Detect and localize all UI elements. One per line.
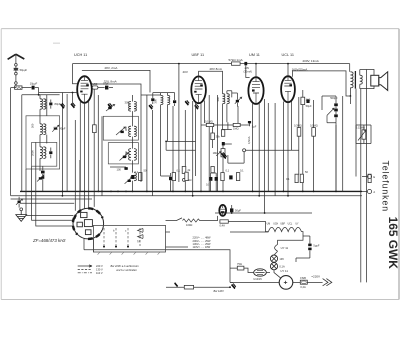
svg-text:0,1: 0,1 <box>226 169 230 173</box>
tube UCH11 electrodes <box>80 76 89 103</box>
svg-text:4,5mA: 4,5mA <box>247 136 251 144</box>
page border left edge <box>0 29 2 300</box>
wire UCH cathode leads down <box>80 102 88 210</box>
svg-text:300: 300 <box>216 97 220 102</box>
svg-text:Bei 220V a-b auftrennen: Bei 220V a-b auftrennen <box>111 264 140 268</box>
legend line solid 220V <box>78 264 103 268</box>
svg-text:57kΩ 1mA: 57kΩ 1mA <box>229 58 243 62</box>
trimmer ground leg <box>16 197 23 208</box>
tube UCH11 envelope <box>77 76 92 103</box>
svg-text:1200: 1200 <box>124 151 128 157</box>
switch arrow tone <box>327 108 334 123</box>
capacitor 50pF antenna series <box>14 66 19 72</box>
capacitor 80pF across L1 <box>49 100 52 109</box>
wire UCH grid lead <box>39 92 78 94</box>
coil IF transformer 1 secondary <box>167 93 169 110</box>
resistor row above bus 5 <box>221 173 224 181</box>
capacitor 0,1uF IF1 foot <box>169 173 172 191</box>
wire screen rail from UCH <box>82 70 150 92</box>
wire mains left stub <box>230 281 233 283</box>
node antenna junction <box>15 87 17 89</box>
wire mains dropper line <box>166 286 230 288</box>
wire UM11 anode to rail <box>255 64 257 78</box>
svg-text:UY 11: UY 11 <box>280 269 288 273</box>
wire secondary loop to speaker <box>360 70 367 89</box>
heater labels <box>267 224 299 226</box>
wire primary bottom continues down <box>349 96 351 104</box>
node <box>38 94 40 96</box>
capacitor 0,1 left <box>222 142 225 145</box>
resistor 1k with circle node <box>182 166 191 181</box>
tube UBF11 electrodes <box>194 76 203 103</box>
svg-text:UCL 11: UCL 11 <box>282 53 294 57</box>
ground chassis flag dropper <box>174 283 177 287</box>
wire left drop from coil rail <box>21 95 23 192</box>
coil IF transformer 1 primary <box>161 93 163 110</box>
node grid junction <box>72 92 74 94</box>
wire switch feed left 3 <box>36 166 74 226</box>
svg-text:40V: 40V <box>183 70 188 74</box>
resistor 0,5M <box>310 123 318 136</box>
capacitor IF1 primary tuning <box>151 96 154 105</box>
wire antenna down to junction <box>15 75 17 88</box>
wire output transformer feed <box>349 64 351 72</box>
resistor row above bus 3 <box>185 172 188 180</box>
tube UM11 envelope (tuning indicator) <box>248 77 263 104</box>
capacitor above bus right <box>229 175 232 179</box>
svg-text:5μF: 5μF <box>252 125 257 129</box>
svg-text:Bei 110V: Bei 110V <box>214 289 225 293</box>
svg-text:und b-c verbinden: und b-c verbinden <box>116 268 137 272</box>
terminal TA circle 2 <box>362 189 375 194</box>
resistor volume pot 1M with arrow <box>213 149 225 157</box>
fuse U50 box <box>92 82 98 89</box>
coil L4 osc top pair <box>129 95 137 116</box>
wire UCH anode line <box>92 84 141 95</box>
note text voltage strapping <box>111 264 140 272</box>
coil output transformer secondary <box>360 75 362 84</box>
speaker LS magnet <box>371 75 379 86</box>
wire UBF cathode leads <box>193 101 205 197</box>
wire UM cathode leads <box>253 99 265 213</box>
capacitor 10uF screen bypass <box>98 82 113 90</box>
capacitor 50uF rectifier output <box>230 205 241 213</box>
resistor 7k cathode UCL <box>301 97 310 104</box>
coil IF transformer 2 primary <box>223 94 225 130</box>
capacitor tone stack C1 <box>330 96 338 109</box>
value label smudges above chassis bus <box>135 168 309 181</box>
svg-text:Telefunken: Telefunken <box>381 161 391 213</box>
node osc bus dots <box>101 191 103 193</box>
ground chassis flag osc foot <box>108 103 112 108</box>
resistor row above bus 4 <box>211 167 214 173</box>
wire detector line <box>201 122 250 129</box>
svg-text:28V, 2mA: 28V, 2mA <box>105 66 118 70</box>
page border bottom edge <box>1 299 399 301</box>
ground chassis flag IF2 foot <box>221 153 223 155</box>
faint stamp smudge top-left <box>53 42 60 44</box>
wire switch bottom run 1 <box>84 250 230 260</box>
wire IF1 top links <box>141 93 175 98</box>
capacitor across L3 <box>49 148 52 159</box>
node UM grid <box>245 63 247 65</box>
svg-text:0,1A: 0,1A <box>279 264 285 268</box>
resistor 57k in HT rail <box>229 58 243 66</box>
wire speaker verticals down <box>361 89 367 283</box>
tube UY11 rectifier <box>219 205 226 216</box>
wire UCL side vertical <box>274 103 276 196</box>
transformer core <box>354 71 356 89</box>
wire selector to table <box>166 232 189 247</box>
svg-text:ZF=468/473 kHz: ZF=468/473 kHz <box>32 238 66 243</box>
resistor 2k osc <box>93 125 97 133</box>
svg-text:UCH: UCH <box>273 224 278 226</box>
svg-text:110 V: 110 V <box>96 271 103 275</box>
trimmer arrow osc 4 <box>125 177 132 184</box>
svg-text:UBF 11: UBF 11 <box>192 53 205 57</box>
connector circle 2 <box>15 72 18 75</box>
svg-text:220 V: 220 V <box>96 264 103 268</box>
tube UM11 electrodes <box>252 77 260 104</box>
coil output transformer primary <box>350 72 353 88</box>
svg-text:100Ω: 100Ω <box>186 223 192 227</box>
selector box bottom hatching <box>98 252 160 255</box>
terminal TA circle 1 <box>362 174 375 179</box>
ground chassis flag UBF right <box>195 104 199 109</box>
coil L1 antenna winding pair <box>40 95 46 116</box>
wire right column verticals <box>336 89 356 192</box>
capacitor 50uF cathode bypass <box>306 99 312 108</box>
wire grid coupling down into coil box <box>38 88 40 95</box>
wire ground stub <box>72 93 74 105</box>
wire UBF screen vertical <box>208 95 210 191</box>
node circle AF takeoff <box>243 149 246 152</box>
svg-text:TA: TA <box>137 240 140 244</box>
svg-text:300: 300 <box>154 99 158 104</box>
switch S1 waveband rotary <box>73 208 104 239</box>
box voltage selector housing <box>94 225 166 252</box>
switch mains with resistor 100ohm <box>166 216 218 227</box>
svg-text:UM 11: UM 11 <box>249 53 260 57</box>
capacitor output coupling pair right <box>295 174 303 182</box>
svg-text:0,1: 0,1 <box>177 169 181 173</box>
voltage selector taps <box>101 228 140 248</box>
capacitor rail bypass at 57k <box>244 62 247 65</box>
svg-text:1MΩ: 1MΩ <box>233 127 239 131</box>
ground chassis flag left coil foot <box>60 103 64 108</box>
svg-text:UY: UY <box>295 224 299 226</box>
capacitor IF1 secondary tuning <box>173 98 176 107</box>
svg-text:50μF: 50μF <box>235 208 241 212</box>
wire IF2 links <box>227 91 238 98</box>
svg-text:0,3MΩ: 0,3MΩ <box>294 123 302 127</box>
wire UBF diode vertical <box>217 95 219 191</box>
ground chassis flag UBF left <box>185 100 189 105</box>
trimmer IF2 with arrow <box>235 96 242 107</box>
svg-text:U50: U50 <box>93 82 98 86</box>
resistor 0,4A heater ballast <box>220 220 229 228</box>
wire AVC bus thick <box>20 190 362 192</box>
oscillator box lower <box>108 143 138 164</box>
wire speaker links <box>367 70 375 89</box>
antenna A1 <box>8 54 25 63</box>
wire UY heater to lamp <box>274 251 278 255</box>
node <box>255 63 257 65</box>
node bus dots left <box>62 191 64 193</box>
wire pot connections <box>223 144 232 191</box>
wire UBF anode to rail <box>199 71 223 94</box>
resistor 0,3M grid leak UCL <box>294 123 302 136</box>
wire heater mid line <box>230 231 268 233</box>
node mains dropper <box>229 286 231 288</box>
svg-text:UBF: UBF <box>280 224 285 226</box>
wire AF line <box>228 150 299 163</box>
svg-text:UY 11: UY 11 <box>281 246 289 250</box>
trimmer arrow osc 2 <box>116 127 125 135</box>
wire chassis bus thin <box>11 195 362 197</box>
svg-text:10μF: 10μF <box>103 82 109 86</box>
resistor right edge vertical <box>368 174 371 182</box>
coil label smudges left box <box>31 97 221 157</box>
resistor AF coupling vertical <box>221 130 224 137</box>
wire left sub-bus 2 <box>20 202 74 204</box>
legend line dashed 130V <box>78 268 103 272</box>
svg-text:UCH 11: UCH 11 <box>74 53 87 57</box>
capacitor 5nF detector <box>248 121 257 129</box>
wire UCL cathode leads <box>283 102 291 197</box>
capacitor mains RF pair <box>308 238 320 258</box>
ground chassis flag UM foot <box>222 153 226 158</box>
svg-text:35k: 35k <box>216 134 221 138</box>
wire heater chain run <box>228 222 268 232</box>
svg-text:110V= ..... 18W: 110V= ..... 18W <box>193 245 211 249</box>
wire feedback network <box>356 125 371 144</box>
node <box>165 141 167 143</box>
wire heater line upper <box>215 212 312 214</box>
ground chassis flag mains left <box>231 284 235 289</box>
tube UCL11 envelope <box>281 76 295 102</box>
lamp dial 2 <box>270 263 285 270</box>
svg-text:≈220V: ≈220V <box>311 274 320 278</box>
coil IF transformer 2 secondary <box>227 91 229 122</box>
wire oscillator section verticals <box>62 89 102 213</box>
heater UY11 scallop <box>275 244 278 251</box>
wire coil tap verticals in box <box>36 95 47 192</box>
svg-text:100: 100 <box>117 167 122 171</box>
svg-text:500: 500 <box>31 123 35 128</box>
wire IF1 anode vertical <box>140 95 142 182</box>
svg-text:75Ω: 75Ω <box>237 262 242 266</box>
resistor 105 ohm antenna shunt <box>15 86 22 89</box>
capacitor tone stack C2 <box>334 109 338 115</box>
svg-text:0,1: 0,1 <box>286 177 290 181</box>
capacitor 0,1uF AF foot pair <box>206 173 218 191</box>
ground chassis flag mid <box>149 104 153 109</box>
capacitor tone stack C3 <box>334 114 338 122</box>
wire UM grid feed <box>246 65 250 77</box>
node <box>287 63 289 65</box>
svg-text:10μμF: 10μμF <box>30 82 38 86</box>
wire top rail of antenna coil assembly <box>22 94 60 96</box>
svg-text:300: 300 <box>125 101 130 105</box>
tube UCL11 electrodes <box>284 76 292 102</box>
capacitor padder osc <box>124 167 127 170</box>
resistor 1M AVC <box>233 123 240 130</box>
resistor row above bus 1 <box>139 173 142 181</box>
resistor mains dropper <box>184 285 193 289</box>
coil L6 osc low pair <box>129 149 137 164</box>
svg-text:130 V: 130 V <box>96 268 103 272</box>
antenna plug connector circle <box>15 64 18 67</box>
wire switch feed left 1 <box>26 169 73 216</box>
node rail dot <box>178 63 180 65</box>
heater chain scallops <box>268 227 301 231</box>
svg-text:UM: UM <box>267 224 271 226</box>
svg-text:200V, 13mA: 200V, 13mA <box>303 59 319 63</box>
page border top edge <box>1 28 399 30</box>
urdox resistor oval <box>253 269 266 281</box>
svg-text:0,1: 0,1 <box>240 169 244 173</box>
wire IF1 verticals down <box>147 64 185 196</box>
svg-text:50μμF: 50μμF <box>20 68 28 72</box>
coil L2 MW winding pair <box>40 116 46 144</box>
svg-text:0,4A: 0,4A <box>300 285 306 289</box>
wire lamp to mains circle <box>230 270 281 283</box>
ground chassis flag UCH <box>71 103 75 108</box>
svg-text:300: 300 <box>124 126 128 131</box>
wire mains line <box>293 281 323 283</box>
wire second left vertical <box>11 88 16 196</box>
wire AVC link <box>161 141 196 176</box>
wire rail corner down to UCH grid circuit <box>73 64 78 84</box>
svg-text:A: A <box>373 190 375 194</box>
resistor row above bus 6 <box>236 173 239 181</box>
wire switch bottom drops <box>84 238 93 252</box>
wire UM feed vertical <box>267 103 269 191</box>
svg-text:50μF: 50μF <box>306 104 312 108</box>
resistor 35k <box>211 133 221 140</box>
resistor 75ohm series <box>237 262 244 270</box>
connector circle 3 <box>15 82 18 85</box>
coil box inner <box>32 142 57 166</box>
wire <box>212 127 214 148</box>
speaker LS cone <box>379 72 388 91</box>
coil L3 LW winding pair <box>40 143 46 171</box>
page border right edge <box>398 29 400 300</box>
oscillator box upper <box>103 116 138 140</box>
node dots on buses <box>62 191 337 214</box>
resistor 0,1M diode load <box>205 119 214 126</box>
tube UBF11 envelope <box>191 76 206 103</box>
wire grid stopper line <box>166 130 232 151</box>
coil L7 osc feedback below box <box>133 173 137 192</box>
trimmer arrow osc 3 <box>120 153 129 161</box>
node <box>350 95 352 97</box>
trimmer arrow osc 1 <box>106 105 115 112</box>
legend line dashdot 110V <box>78 271 103 275</box>
svg-text:80pF: 80pF <box>55 102 61 106</box>
trimmer capacitor 45pF <box>52 125 59 132</box>
svg-text:2000: 2000 <box>31 150 35 156</box>
ground chassis flag AF <box>221 152 225 157</box>
svg-text:19V: 19V <box>279 257 284 261</box>
capacitor row above bus <box>131 175 134 179</box>
svg-text:0,4A: 0,4A <box>220 224 226 228</box>
wire heater chain to lamps <box>278 232 303 245</box>
svg-text:FSiB: FSiB <box>300 276 306 280</box>
svg-text:0,5MΩ: 0,5MΩ <box>310 123 318 127</box>
svg-text:5μμF: 5μμF <box>313 243 319 247</box>
mains plug arrows <box>323 279 332 286</box>
fuse mains <box>300 276 307 289</box>
mains ballast tube circle <box>279 269 293 289</box>
svg-text:E: E <box>373 175 375 179</box>
resistor row above bus 2 <box>172 173 175 181</box>
wire cathode network verticals <box>299 90 314 191</box>
svg-text:(30mA): (30mA) <box>244 70 253 74</box>
connector circle earth <box>20 208 23 211</box>
wire urdox links <box>230 260 270 282</box>
wire UCL screen line to output transformer <box>293 71 351 96</box>
svg-text:0,1: 0,1 <box>135 170 139 174</box>
wire padder line osc <box>110 164 133 173</box>
wire HT+ top rail <box>73 63 350 65</box>
wire switch feed left 2 <box>32 166 74 220</box>
svg-text:165 GWK: 165 GWK <box>386 217 400 270</box>
capacitor 10uuF series to grid <box>22 86 39 90</box>
voltage table <box>193 236 212 250</box>
capacitor padder below coil box <box>41 166 45 179</box>
wire UCL anode up to rail <box>287 64 289 77</box>
wire transformer primary bottom <box>349 88 351 96</box>
svg-text:28V 8mA: 28V 8mA <box>210 67 222 71</box>
svg-text:500pF: 500pF <box>330 96 338 100</box>
ground earth symbol <box>16 211 27 222</box>
trimmer antenna lower <box>37 175 44 182</box>
svg-text:U10/15: U10/15 <box>253 277 262 281</box>
wire mains cap branch <box>296 236 310 262</box>
terminal arrows TA pickup <box>137 228 143 243</box>
wire tone stack top <box>322 96 336 191</box>
coil box outer (band filter shield) <box>26 116 60 169</box>
svg-text:20V: 20V <box>245 66 250 70</box>
resistor feedback variable with arrow <box>356 126 366 141</box>
svg-text:UCL: UCL <box>288 224 293 226</box>
wire left sub-bus 1 <box>11 198 92 200</box>
lamp dial 1 <box>270 255 284 262</box>
coil L5 osc mid pair <box>129 116 137 148</box>
wire detector cap vertical <box>237 106 239 123</box>
